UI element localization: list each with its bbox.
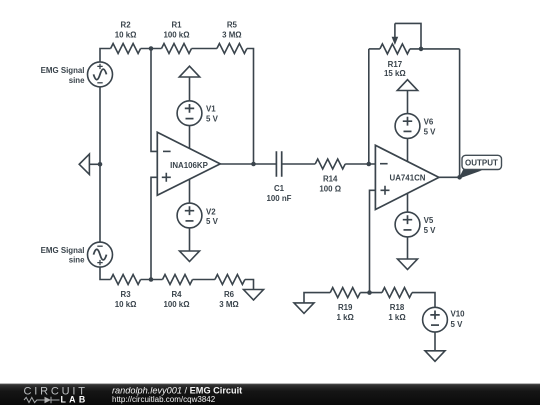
svg-text:R19: R19 [338,303,353,312]
svg-text:R2: R2 [121,20,132,29]
svg-text:V5: V5 [424,216,434,225]
svg-text:100 kΩ: 100 kΩ [163,300,189,309]
svg-text:10 kΩ: 10 kΩ [115,300,137,309]
svg-text:V6: V6 [424,117,434,126]
svg-text:LAB: LAB [61,395,89,405]
wire U2 bottom pin to V5 [407,193,409,212]
label R1 100 kΩ [163,20,189,39]
wire R17 left lead [369,48,380,50]
resistor R14 [315,159,345,169]
svg-text:3 MΩ: 3 MΩ [219,300,238,309]
label R6 3 MΩ [219,290,238,309]
wire output node to C1 [254,163,277,165]
svg-text:R14: R14 [323,174,338,183]
junction node B (R3/R4/non-inverting rail) [149,277,154,282]
wire R5 down to output node [247,49,254,165]
CircuitLab logo [24,386,89,405]
svg-text:100 Ω: 100 Ω [319,185,341,194]
wire left rail between sources [99,87,101,242]
wire feedback rail up to R17 [368,49,370,164]
svg-text:R18: R18 [390,303,405,312]
resistor R4 [163,275,193,285]
wire source2 bottom to R3 [100,267,111,279]
ground below V5 [398,259,418,270]
junction R19/R18 divider node [367,290,372,295]
svg-text:EMG Signal: EMG Signal [41,246,85,255]
label V1 5 V [206,105,219,124]
junction output node of U1 [251,162,256,167]
wire VCC arrow to V1 [189,77,191,101]
resistor R2 [111,44,141,54]
wire R6 to ground [245,280,254,290]
resistor R3 [111,275,141,285]
resistor R5 [217,44,247,54]
label R4 100 kΩ [163,290,189,309]
wire R2 to R1 [141,48,162,50]
svg-text:sine: sine [69,256,85,265]
wire op-amp U1 output [220,163,253,165]
svg-text:INA106KP: INA106KP [170,161,208,170]
svg-text:http://circuitlab.com/cqw3842: http://circuitlab.com/cqw3842 [112,395,216,404]
node OUTPUT flag [459,155,502,179]
label R14 100 Ω [319,174,341,193]
wire R14 to U2 inverting input [345,163,375,165]
svg-text:3 MΩ: 3 MΩ [222,31,241,40]
wire R18 to V10 [412,293,435,308]
svg-text:R17: R17 [388,60,403,69]
svg-text:1 kΩ: 1 kΩ [388,313,405,322]
svg-text:C1: C1 [274,184,285,193]
svg-text:V1: V1 [206,105,216,114]
op-amp U2 UA741CN [375,145,439,209]
voltage source V2 [177,203,202,228]
label R3 10 kΩ [115,290,137,309]
svg-text:OUTPUT: OUTPUT [465,158,498,167]
ground left of R19 [294,303,314,314]
wire R1 to R5 [192,48,217,50]
label R2 10 kΩ [115,20,137,39]
power flag above V1 [179,66,199,77]
footer bar [0,384,540,405]
svg-text:15 kΩ: 15 kΩ [384,69,406,78]
wire op-amp U1 bottom to V2 [189,179,191,203]
resistor R6 [215,275,245,285]
resistor R1 [162,44,192,54]
wire V5 to ground [407,237,409,259]
label V5 5 V [424,216,437,235]
svg-text:V2: V2 [206,207,216,216]
wire non-inverting input rail [151,177,157,279]
wire V2 to ground [189,228,191,251]
voltage source V5 [395,212,420,237]
label R18 1 kΩ [388,303,405,322]
label R17 15 kΩ [384,60,406,78]
wire R19 to R18 [360,292,382,294]
ground below V2 [180,251,200,262]
ground below V10 [425,351,445,362]
label V6 5 V [424,117,437,136]
label V10 5 V [451,310,466,330]
svg-text:R3: R3 [121,290,132,299]
svg-text:5 V: 5 V [424,127,437,136]
voltage source V1 [177,101,202,126]
wire U2 output [439,176,460,178]
EMG Signal source 2 (sine, flipped) [88,242,113,267]
op-amp U1 INA106KP [157,132,220,195]
wire R17 right lead [410,48,460,50]
power flag above V6 [397,80,417,91]
svg-text:sine: sine [69,76,85,85]
capacitor C1 [276,151,281,177]
wire inverting input rail [151,49,157,152]
potentiometer R17 [380,23,421,54]
svg-text:10 kΩ: 10 kΩ [115,31,137,40]
label EMG Signal sine (source 2) [41,246,85,265]
EMG Signal source 1 (sine) [88,62,113,87]
svg-text:R6: R6 [224,290,235,299]
wire power flag to V6 [407,91,409,114]
wire V6 to U2 top pin [407,138,409,161]
label V2 5 V [206,207,219,226]
svg-text:R1: R1 [171,20,182,29]
footer credit text [112,386,242,404]
svg-text:V10: V10 [451,310,466,319]
voltage source V10 [423,307,448,332]
wire R4 to R6 [193,279,215,281]
ground (left-pointing) [79,154,89,174]
junction R17 wiper tap [419,47,424,52]
junction left rail ground tap [98,162,103,167]
wire source1 top to R2 [100,49,111,62]
svg-text:1 kΩ: 1 kΩ [337,313,354,322]
svg-text:EMG Signal: EMG Signal [41,66,85,75]
junction node A (R2/R1/inverting rail) [149,46,154,51]
wire V1 pin to op-amp U1 top [189,126,191,149]
svg-text:R4: R4 [171,290,182,299]
label R5 3 MΩ [222,20,241,39]
svg-text:R5: R5 [227,20,238,29]
wire C1 to R14 [282,163,316,165]
junction output node [457,175,462,180]
wire U2 non-inverting rail down [370,190,376,292]
wire feedback right rail down to output [459,49,461,177]
wire ground stub left [89,163,100,165]
label EMG Signal sine (source 1) [41,66,85,85]
svg-text:UA741CN: UA741CN [390,174,426,183]
wire V10 to ground [434,332,436,351]
resistor R19 [330,288,360,298]
ground below R6 [244,290,264,301]
svg-text:5 V: 5 V [206,114,219,123]
label C1 100 nF [267,184,292,203]
svg-text:5 V: 5 V [424,226,437,235]
junction U2 inverting node [367,162,372,167]
voltage source V6 [395,114,420,139]
wire R3 to R4 [141,279,163,281]
label R19 1 kΩ [337,303,354,322]
wire ground to R19 [304,293,330,303]
svg-text:100 kΩ: 100 kΩ [163,31,189,40]
resistor R18 [382,288,412,298]
svg-text:5 V: 5 V [206,217,219,226]
svg-text:5 V: 5 V [451,320,464,329]
svg-text:100 nF: 100 nF [267,194,292,203]
